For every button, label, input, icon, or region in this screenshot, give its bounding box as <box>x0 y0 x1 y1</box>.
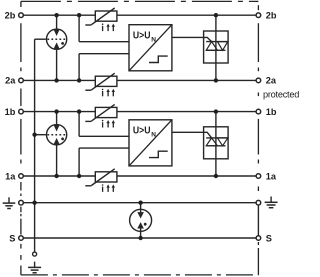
svg-text:S: S <box>9 233 15 243</box>
svg-text:1b: 1b <box>266 107 277 117</box>
svg-text:2b: 2b <box>5 11 16 21</box>
svg-text:1b: 1b <box>5 107 16 117</box>
svg-text:2a: 2a <box>5 76 16 86</box>
svg-text:N: N <box>151 36 156 43</box>
svg-text:1a: 1a <box>5 171 16 181</box>
svg-text:N: N <box>151 132 156 139</box>
svg-text:U>U: U>U <box>133 126 151 137</box>
svg-text:2b: 2b <box>266 11 277 21</box>
svg-text:S: S <box>266 233 272 243</box>
svg-text:1a: 1a <box>266 171 277 181</box>
svg-text:U>U: U>U <box>133 31 151 42</box>
svg-text:2a: 2a <box>266 76 277 86</box>
svg-text:protected: protected <box>263 90 299 100</box>
